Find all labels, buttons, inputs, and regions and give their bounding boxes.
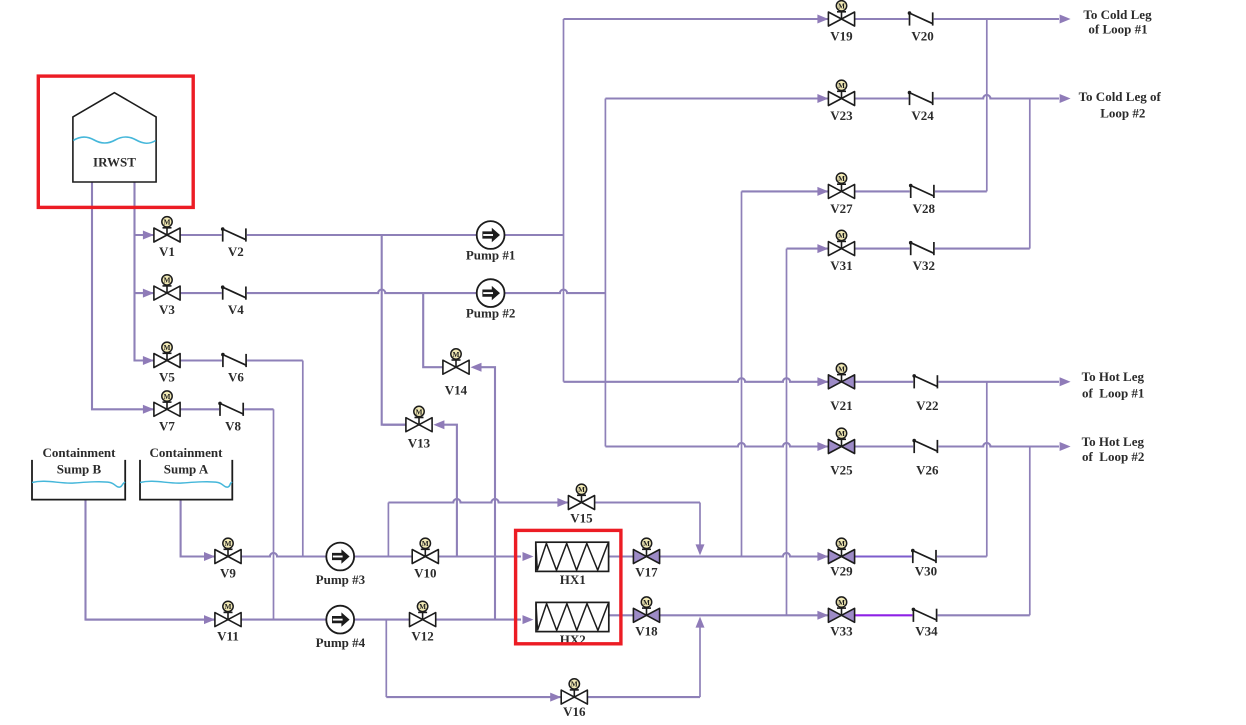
svg-text:V5: V5 <box>159 370 175 385</box>
svg-text:V2: V2 <box>228 244 244 259</box>
svg-text:M: M <box>453 351 460 359</box>
motor valve V13 <box>406 418 432 432</box>
wire drop Pump2-row to V14 <box>423 293 468 367</box>
svg-text:Containment: Containment <box>43 445 117 460</box>
wire Sump A outlet to V9 <box>181 500 215 557</box>
wire vertical V30 up to hot leg1 <box>986 382 988 557</box>
svg-text:V21: V21 <box>830 398 852 413</box>
wire row V21-V22 hot leg1 <box>564 378 1060 382</box>
motor valve V18 <box>633 608 659 622</box>
motor valve V19 <box>828 12 854 26</box>
svg-text:Pump #3: Pump #3 <box>316 572 366 587</box>
wire drop V8 to pump4 suction <box>273 409 275 619</box>
check valve V32 <box>910 242 935 255</box>
arrow into HX2 <box>523 615 534 624</box>
svg-text:V8: V8 <box>225 418 241 433</box>
svg-text:M: M <box>838 175 845 183</box>
arrow into V27 <box>817 187 828 196</box>
arrow into V31 <box>817 244 828 253</box>
tank Containment Sump A <box>140 460 232 500</box>
wire V30 out <box>936 555 987 557</box>
svg-text:V6: V6 <box>228 370 244 385</box>
svg-text:V4: V4 <box>228 302 244 317</box>
motor valve V25 <box>828 440 854 454</box>
check valve V24 <box>909 92 934 105</box>
svg-text:V33: V33 <box>830 623 853 638</box>
tank Containment Sump B <box>32 460 125 500</box>
wire riser V12-row to V14 <box>481 367 495 619</box>
motor valve V12 <box>410 613 436 627</box>
svg-text:To Cold Leg: To Cold Leg <box>1083 7 1152 22</box>
svg-text:V1: V1 <box>159 244 175 259</box>
svg-text:M: M <box>643 540 650 548</box>
arrow into V15 <box>557 498 568 507</box>
svg-text:V9: V9 <box>220 566 236 581</box>
motor valve V5 <box>154 354 180 368</box>
svg-text:V12: V12 <box>411 629 433 644</box>
motor valve V17 <box>633 550 659 564</box>
wire Sump B outlet to V11 <box>86 500 216 620</box>
arrow into V19 <box>817 15 828 24</box>
svg-text:M: M <box>164 393 171 401</box>
svg-text:M: M <box>416 408 423 416</box>
svg-text:M: M <box>643 599 650 607</box>
arrow into V25 <box>817 442 828 451</box>
svg-text:V14: V14 <box>445 383 468 398</box>
motor valve V10 <box>412 550 438 564</box>
motor valve V29 <box>828 550 854 564</box>
pump Pump #1 <box>477 221 505 249</box>
wire row V15 <box>388 499 700 503</box>
svg-text:V3: V3 <box>159 302 175 317</box>
wire row V3-V4-Pump2 <box>180 290 605 294</box>
arrow into V5 <box>143 356 154 365</box>
motor valve V21 <box>828 375 854 389</box>
check valve V30 <box>912 550 937 563</box>
arrow down V15 line <box>696 544 705 555</box>
arrow up V16 line <box>696 617 705 628</box>
svg-text:M: M <box>838 82 845 90</box>
svg-text:M: M <box>578 486 585 494</box>
tank IRWST <box>73 93 156 182</box>
wire V15 drop to V17 row <box>699 503 701 546</box>
arrow into V9 <box>204 552 215 561</box>
wire row V16 <box>386 696 700 698</box>
wire row V31-V32 <box>787 248 1030 250</box>
arrow into V23 <box>817 94 828 103</box>
motor valve V27 <box>828 184 854 198</box>
motor valve V11 <box>215 613 241 627</box>
wire pump1 riser-drop vertical <box>563 19 565 382</box>
wire row V25-V26 hot leg2 <box>605 443 1059 447</box>
wire V13 out up <box>383 424 406 426</box>
svg-text:V31: V31 <box>830 258 852 273</box>
svg-text:V23: V23 <box>830 108 853 123</box>
wire main row sumpA-Pump3-V10-HX1 <box>181 553 521 557</box>
svg-text:M: M <box>838 540 845 548</box>
check valve V26 <box>913 440 938 453</box>
svg-text:V17: V17 <box>635 565 658 580</box>
arrow into V16 <box>550 693 561 702</box>
wire row V5-V6 <box>180 359 302 361</box>
heat exchanger HX2 <box>536 602 609 631</box>
check valve V8 <box>219 403 244 416</box>
svg-text:Sump B: Sump B <box>57 462 102 477</box>
arrow into V21 <box>817 377 828 386</box>
wire V16 riser to V18 row <box>699 627 701 697</box>
svg-text:Pump #4: Pump #4 <box>316 635 366 650</box>
arrow into V1 <box>143 231 154 240</box>
wire segment V33-V34 violet <box>855 614 914 616</box>
arrow into HX1 <box>523 552 534 561</box>
svg-text:V34: V34 <box>915 623 938 638</box>
svg-text:M: M <box>164 277 171 285</box>
svg-text:V20: V20 <box>911 29 933 44</box>
svg-text:V27: V27 <box>830 201 853 216</box>
svg-text:To Hot Leg: To Hot Leg <box>1082 369 1145 384</box>
svg-text:M: M <box>838 232 845 240</box>
svg-text:V15: V15 <box>570 511 593 526</box>
svg-text:Containment: Containment <box>150 445 224 460</box>
wire low row sumpB-Pump4-V12-HX2 <box>86 619 522 621</box>
svg-text:M: M <box>164 344 171 352</box>
wire HX1 out to V29 <box>609 553 830 557</box>
svg-text:V11: V11 <box>217 629 239 644</box>
check valve V34 <box>912 609 937 622</box>
wire V16 tap drop <box>385 620 387 698</box>
arrow out cold leg2 <box>1060 94 1071 103</box>
wire HX2 out to V33 <box>609 614 829 616</box>
wire row V19-V20 cold leg1 <box>564 18 1060 20</box>
svg-text:V29: V29 <box>830 564 853 579</box>
svg-text:V26: V26 <box>916 463 939 478</box>
svg-text:of Loop #1: of Loop #1 <box>1082 386 1144 401</box>
wire row V27-V28 <box>742 190 987 192</box>
svg-text:IRWST: IRWST <box>93 155 136 170</box>
svg-text:V22: V22 <box>916 398 938 413</box>
wire row V23-V24 cold leg2 <box>605 95 1059 99</box>
arrow out hot leg1 <box>1060 377 1071 386</box>
svg-text:To Hot Leg: To Hot Leg <box>1082 434 1145 449</box>
wire drop Pump1-row to V13 <box>382 235 432 425</box>
red highlight box around IRWST <box>38 76 193 207</box>
wire branch to V1 <box>135 234 154 236</box>
red highlight box around HX1/HX2 <box>516 530 621 643</box>
wire vertical V31 feed from V18 row <box>786 249 788 616</box>
svg-text:Loop #2: Loop #2 <box>1100 105 1145 120</box>
arrow out cold leg1 <box>1060 15 1071 24</box>
svg-text:of Loop #2: of Loop #2 <box>1082 449 1144 464</box>
svg-text:Sump A: Sump A <box>164 462 209 477</box>
arrow into V7 <box>143 405 154 414</box>
motor valve V3 <box>154 286 180 300</box>
wire riser V10-row to V13 <box>444 425 457 557</box>
svg-text:Pump #2: Pump #2 <box>466 306 515 321</box>
svg-text:V24: V24 <box>911 108 934 123</box>
wire drop V6 to pump3 suction <box>302 361 304 557</box>
svg-text:of Loop #1: of Loop #1 <box>1088 21 1147 36</box>
check valve V4 <box>222 287 247 300</box>
svg-text:M: M <box>164 219 171 227</box>
check valve V28 <box>910 185 935 198</box>
wire vertical V27 feed from V17 row <box>741 191 743 556</box>
motor valve V15 <box>568 496 594 510</box>
check valve V6 <box>222 354 247 367</box>
svg-text:M: M <box>419 603 426 611</box>
arrow into V3 <box>143 289 154 298</box>
arrow into V11 <box>204 615 215 624</box>
svg-text:M: M <box>225 603 232 611</box>
wire IRWST left outlet to V7 <box>92 182 154 409</box>
svg-text:V16: V16 <box>563 704 586 719</box>
wire row V1-V2-Pump1 <box>180 234 563 236</box>
pump Pump #4 <box>326 606 354 634</box>
pump Pump #2 <box>477 279 505 307</box>
check valve V20 <box>909 12 934 25</box>
svg-text:M: M <box>422 540 429 548</box>
arrow into V33 <box>817 611 828 620</box>
svg-text:M: M <box>838 365 845 373</box>
svg-text:M: M <box>838 3 845 11</box>
heat exchanger HX1 <box>536 542 609 571</box>
wire V15 tap riser <box>387 503 389 557</box>
svg-text:V28: V28 <box>913 201 936 216</box>
wire segment V29-V30 <box>855 555 913 557</box>
arrow into V29 <box>817 552 828 561</box>
motor valve V16 <box>561 690 587 704</box>
svg-text:V10: V10 <box>414 566 436 581</box>
motor valve V7 <box>154 402 180 416</box>
svg-text:V25: V25 <box>830 463 853 478</box>
svg-text:Pump #1: Pump #1 <box>466 248 515 263</box>
check valve V2 <box>222 228 247 241</box>
arrow out hot leg2 <box>1060 442 1071 451</box>
svg-text:V32: V32 <box>913 258 935 273</box>
svg-text:V13: V13 <box>408 435 431 450</box>
svg-text:To Cold Leg of: To Cold Leg of <box>1079 89 1162 104</box>
wire branch to V3 <box>135 292 154 294</box>
wire vertical V28 up to cold leg1 <box>986 19 988 191</box>
svg-text:M: M <box>838 599 845 607</box>
motor valve V23 <box>828 92 854 106</box>
svg-text:M: M <box>225 540 232 548</box>
motor valve V31 <box>828 242 854 256</box>
check valve V22 <box>913 375 938 388</box>
wire vertical V34 up to hot leg2 <box>1029 447 1031 616</box>
motor valve V1 <box>154 228 180 242</box>
svg-text:M: M <box>838 430 845 438</box>
motor valve V14 <box>443 360 469 374</box>
wire pump2 riser-drop vertical <box>604 99 606 447</box>
wire vertical V32 up to cold leg2 <box>1029 99 1031 249</box>
svg-text:V7: V7 <box>159 418 175 433</box>
motor valve V33 <box>828 608 854 622</box>
svg-text:HX1: HX1 <box>560 572 586 587</box>
wire row V7-V8 <box>180 408 273 410</box>
pump Pump #3 <box>326 543 354 571</box>
arrow into V13 <box>433 420 444 429</box>
wire V34 out <box>937 614 1030 616</box>
svg-text:V18: V18 <box>635 623 658 638</box>
svg-text:V19: V19 <box>830 29 853 44</box>
arrow into V14 <box>471 363 482 372</box>
motor valve V9 <box>215 550 241 564</box>
svg-text:M: M <box>571 681 578 689</box>
svg-text:V30: V30 <box>915 564 937 579</box>
wire IRWST right outlet to V1/V3/V5 <box>135 182 154 361</box>
